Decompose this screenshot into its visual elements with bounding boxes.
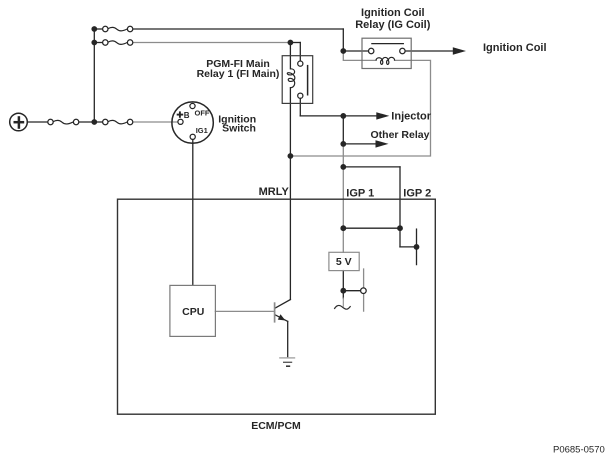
svg-text:Injector: Injector [391,110,431,122]
svg-text:5 V: 5 V [336,256,352,268]
svg-text:IG1: IG1 [196,126,208,135]
svg-text:IGP 2: IGP 2 [403,187,431,199]
svg-text:ECM/PCM: ECM/PCM [251,420,301,432]
svg-text:Ignition Coil: Ignition Coil [361,7,425,19]
svg-text:OFF: OFF [195,109,210,118]
svg-text:Other Relay: Other Relay [371,129,430,141]
svg-text:Relay (IG Coil): Relay (IG Coil) [355,19,431,31]
svg-text:Ignition Coil: Ignition Coil [483,42,547,54]
svg-text:P0685-0570: P0685-0570 [553,445,605,456]
svg-text:Relay 1 (FI Main): Relay 1 (FI Main) [197,68,280,80]
svg-text:IGP 1: IGP 1 [346,187,374,199]
svg-text:B: B [184,111,190,120]
svg-text:MRLY: MRLY [259,186,290,198]
svg-text:Switch: Switch [222,123,256,135]
svg-text:CPU: CPU [182,306,204,318]
